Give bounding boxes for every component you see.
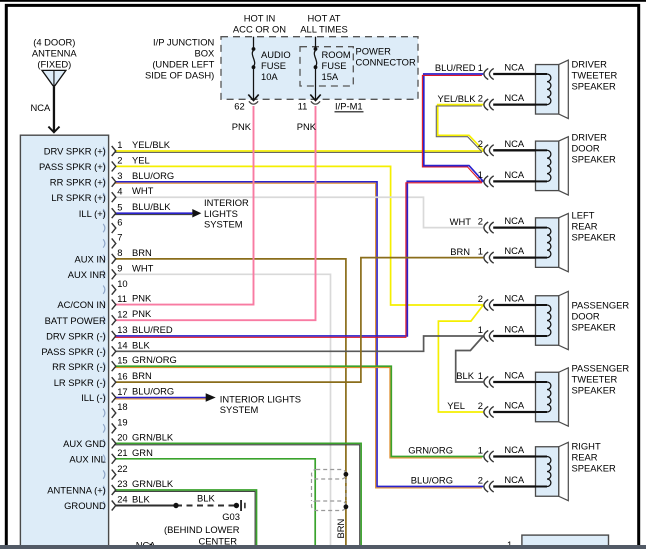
svg-text:4: 4 (117, 185, 122, 196)
svg-text:SYSTEM: SYSTEM (220, 404, 259, 415)
svg-text:WHT: WHT (450, 216, 472, 227)
svg-text:YEL/BLK: YEL/BLK (437, 93, 476, 104)
pin 24 wire color label (132, 494, 150, 505)
wire PNK pin11 from audio fuse (116, 106, 254, 305)
pin 15 bracket (103, 354, 127, 371)
svg-text:INTERIOR: INTERIOR (204, 197, 249, 208)
HOT IN ACC OR ON (233, 13, 286, 35)
pin 20 wire color label (132, 431, 174, 442)
svg-text:10A: 10A (261, 71, 278, 82)
wire BLU/RED branch to driver tweeter pin1 (422, 74, 483, 183)
svg-text:SYSTEM: SYSTEM (204, 219, 243, 230)
svg-text:AUDIO: AUDIO (261, 49, 291, 60)
wire YEL pin2 to passenger door pin2 (116, 166, 484, 305)
svg-text:1: 1 (478, 169, 483, 180)
wire BLU/ORG pin17 to interior lights (114, 398, 208, 399)
svg-text:SPEAKER: SPEAKER (572, 154, 617, 165)
svg-text:PASSENGER: PASSENGER (572, 362, 630, 373)
svg-text:RIGHT: RIGHT (572, 441, 601, 452)
svg-text:G03: G03 (222, 511, 240, 522)
svg-text:TWEETER: TWEETER (572, 373, 618, 384)
svg-text:DOOR: DOOR (572, 311, 600, 322)
pin 62 label (234, 100, 244, 111)
svg-text:19: 19 (117, 417, 127, 428)
svg-text:BLU/RED: BLU/RED (132, 324, 173, 335)
svg-text:BRN: BRN (132, 247, 152, 258)
svg-text:20: 20 (117, 432, 127, 443)
svg-text:GRN/ORG: GRN/ORG (132, 354, 177, 365)
svg-text:AUX INR: AUX INR (68, 269, 106, 280)
svg-text:SIDE OF DASH): SIDE OF DASH) (145, 70, 214, 81)
pin 4 function label (51, 192, 105, 203)
svg-text:GRN/ORG: GRN/ORG (408, 445, 453, 456)
pin 2 wire color label (132, 154, 150, 165)
wire YEL branch to passenger tweeter pin2 (438, 305, 483, 412)
pin 14 wire color label (132, 339, 150, 350)
pin 16 wire color label (132, 370, 152, 381)
pin 1 function label (44, 146, 106, 157)
svg-text:2: 2 (478, 92, 483, 103)
svg-text:NCA: NCA (504, 400, 525, 411)
bottom-right connector box (cut off) (522, 535, 609, 549)
svg-text:RR SPKR (-): RR SPKR (-) (52, 361, 106, 372)
svg-text:YEL/BLK: YEL/BLK (132, 139, 171, 150)
pin 8 function label (75, 253, 106, 264)
svg-text:PASS SPKR (-): PASS SPKR (-) (41, 346, 105, 357)
pin 6 bracket (103, 216, 122, 233)
svg-text:ILL (+): ILL (+) (79, 208, 106, 219)
HOT AT ALL TIMES (300, 13, 347, 35)
svg-text:NCA: NCA (504, 444, 525, 455)
pin 11 wire color label (132, 293, 152, 304)
svg-text:15: 15 (117, 354, 127, 365)
svg-text:(FIXED): (FIXED) (37, 59, 71, 70)
svg-text:SPEAKER: SPEAKER (572, 322, 617, 333)
terminal wire passenger door y=305.0 (484, 293, 536, 311)
svg-text:12: 12 (117, 308, 127, 319)
svg-text:BLK: BLK (132, 494, 150, 505)
BRN vertical label (335, 519, 346, 539)
pin 18 bracket (103, 401, 127, 418)
svg-text:1: 1 (478, 324, 483, 335)
POWER CONNECTOR label (356, 46, 416, 68)
BLK label over dashed ground wire (197, 493, 215, 504)
svg-text:PASSENGER: PASSENGER (572, 300, 630, 311)
wire BLK pin24 ground lead (116, 505, 177, 507)
pin 13 function label (46, 331, 106, 342)
NCA bottom label (136, 540, 157, 549)
svg-text:PNK: PNK (232, 121, 252, 132)
svg-text:(4 DOOR): (4 DOOR) (33, 37, 75, 48)
svg-text:LEFT: LEFT (572, 209, 595, 220)
svg-text:PNK: PNK (297, 121, 317, 132)
pin 1 wire color label (132, 139, 171, 150)
svg-text:BLU/BLK: BLU/BLK (132, 201, 171, 212)
wire GRN/BLK pin20 down (114, 443, 361, 549)
terminal wire left rear y=257.6 (484, 245, 536, 263)
svg-text:INTERIOR LIGHTS: INTERIOR LIGHTS (220, 393, 301, 404)
cut-off arrow near bottom edge (150, 543, 156, 549)
svg-text:22: 22 (117, 463, 127, 474)
svg-text:2: 2 (478, 293, 483, 304)
svg-text:1: 1 (478, 370, 483, 381)
svg-text:ANTENNA (+): ANTENNA (+) (47, 485, 106, 496)
pin 20 bracket (103, 432, 127, 449)
svg-text:17: 17 (117, 386, 127, 397)
svg-text:BRN: BRN (335, 519, 346, 539)
svg-text:AC/CON IN: AC/CON IN (57, 299, 105, 310)
svg-text:SPEAKER: SPEAKER (572, 81, 617, 92)
svg-text:3: 3 (117, 170, 122, 181)
svg-text:2: 2 (478, 474, 483, 485)
svg-text:11: 11 (298, 100, 308, 111)
svg-text:NCA: NCA (504, 215, 525, 226)
pin 20 function label (63, 438, 106, 449)
pin 23 wire color label (132, 478, 174, 489)
bottom window bar (0, 545, 646, 549)
wire BLK branch to passenger tweeter pin1 (456, 336, 484, 382)
speaker: driver door (536, 137, 569, 195)
audio fuse 10A (248, 37, 258, 104)
svg-text:1: 1 (478, 245, 483, 256)
label 2 (passenger door) (478, 293, 483, 304)
terminal wire passenger tweeter y=412.0 (484, 400, 536, 418)
pin 23 bracket (103, 478, 127, 495)
svg-text:REAR: REAR (572, 452, 598, 463)
svg-text:ANTENNA: ANTENNA (32, 48, 78, 59)
wire BLU/BLK pin5 to interior lights (114, 213, 193, 214)
svg-text:HOT IN: HOT IN (244, 13, 276, 24)
wire YEL/BLK branch to driver tweeter pin2 (436, 105, 483, 152)
label BRN 1 (450, 245, 483, 256)
pin 10 bracket (103, 278, 127, 295)
svg-text:BLU/ORG: BLU/ORG (132, 386, 174, 397)
wire GRN/ORG pin15 to right rear pin1 (114, 366, 483, 458)
G03 ground label (164, 511, 240, 547)
pin 9 bracket (103, 262, 122, 279)
ground G03 symbol (234, 503, 239, 508)
speaker labels (572, 59, 618, 92)
wire BRN pin16 to left rear pin1 (116, 258, 484, 383)
wire GRN pin21 down (116, 459, 316, 549)
svg-text:6: 6 (117, 216, 122, 227)
svg-text:14: 14 (117, 340, 127, 351)
pin 23 function label (47, 485, 106, 496)
svg-text:NCA: NCA (504, 474, 525, 485)
svg-text:NCA: NCA (504, 293, 525, 304)
svg-text:GRN: GRN (132, 447, 153, 458)
svg-text:PNK: PNK (132, 293, 152, 304)
svg-text:(BEHIND LOWER: (BEHIND LOWER (164, 524, 240, 535)
svg-text:BLK: BLK (456, 370, 474, 381)
pin 11 label (298, 100, 308, 111)
pin 22 bracket (103, 463, 127, 480)
svg-text:NCA: NCA (504, 245, 525, 256)
svg-text:YEL: YEL (132, 154, 150, 165)
top screenshot edge line (0, 0, 646, 2)
I/P junction box (dashed) (221, 37, 418, 100)
terminal wire driver door y=181.4 (484, 169, 536, 187)
wire WHT pin9 down (116, 274, 331, 549)
AUDIO FUSE 10A label (261, 49, 291, 82)
svg-text:9: 9 (117, 262, 122, 273)
pin 13 wire color label (132, 324, 173, 335)
pin 11 function label (57, 299, 105, 310)
svg-text:BRN: BRN (450, 246, 470, 257)
svg-text:DRIVER: DRIVER (572, 132, 608, 143)
svg-text:DOOR: DOOR (572, 143, 600, 154)
pin 16 function label (54, 377, 106, 388)
svg-text:ACC OR ON: ACC OR ON (233, 24, 286, 35)
svg-text:11: 11 (117, 293, 127, 304)
svg-text:62: 62 (234, 100, 244, 111)
pin 12 function label (45, 315, 106, 326)
antenna symbol (42, 70, 66, 87)
pin 2 function label (39, 161, 106, 172)
pin 12 bracket (103, 308, 127, 325)
svg-text:GROUND: GROUND (64, 500, 106, 511)
arrow into radio box (48, 127, 59, 133)
antenna lead wire (53, 87, 55, 132)
label YEL 2 (447, 400, 483, 411)
svg-text:BATT POWER: BATT POWER (45, 315, 106, 326)
svg-text:YEL: YEL (447, 400, 465, 411)
svg-text:LIGHTS: LIGHTS (204, 208, 238, 219)
svg-text:CENTER: CENTER (198, 536, 237, 547)
svg-text:CONNECTOR: CONNECTOR (356, 57, 416, 68)
speaker: passenger door (536, 291, 569, 349)
svg-text:NCA: NCA (31, 102, 52, 113)
svg-text:2: 2 (478, 215, 483, 226)
svg-text:GRN/BLK: GRN/BLK (132, 478, 174, 489)
pin 17 bracket (103, 386, 127, 403)
terminal wire passenger tweeter y=382.0 (484, 370, 536, 388)
pin 9 function label (68, 269, 106, 280)
svg-text:I/P-M1: I/P-M1 (335, 101, 363, 112)
svg-text:RR SPKR (+): RR SPKR (+) (50, 176, 106, 187)
svg-text:23: 23 (117, 478, 127, 489)
svg-text:ROOM: ROOM (322, 49, 351, 60)
I/P junction box label (145, 37, 215, 81)
terminal wire passenger door y=336.0 (484, 324, 536, 342)
junction dot pin24 (173, 503, 178, 508)
wire PNK pin12 from room fuse (116, 106, 316, 320)
svg-text:ALL TIMES: ALL TIMES (300, 24, 347, 35)
label BLU/ORG 2 (411, 474, 483, 485)
label YEL/BLK 2 (437, 92, 483, 103)
svg-text:1: 1 (478, 444, 483, 455)
speaker: left rear (536, 213, 569, 271)
pin 8 bracket (103, 247, 122, 264)
wire BRN pin8 down to inline connector (116, 259, 346, 549)
pin 12 wire color label (132, 308, 152, 319)
pin 14 bracket (103, 340, 127, 357)
svg-text:SPEAKER: SPEAKER (572, 463, 617, 474)
svg-text:SPEAKER: SPEAKER (572, 231, 617, 242)
terminal wire driver tweeter y=104.6 (484, 92, 536, 110)
svg-text:PASS SPKR (+): PASS SPKR (+) (39, 161, 106, 172)
ROOM FUSE 15A label (322, 49, 351, 82)
pin 15 function label (52, 361, 106, 372)
pin 4 wire color label (132, 185, 154, 196)
svg-text:DRV SPKR (+): DRV SPKR (+) (44, 146, 106, 157)
svg-text:16: 16 (117, 370, 127, 381)
terminal wire left rear y=227.6 (484, 215, 536, 233)
svg-text:POWER: POWER (356, 46, 392, 57)
arrow interior lights (pin17) (206, 393, 216, 402)
wire BLK pin14 to passenger door pin1 (116, 336, 484, 351)
svg-text:BRN: BRN (132, 370, 152, 381)
svg-text:AUX INL: AUX INL (69, 453, 105, 464)
svg-text:BOX: BOX (194, 48, 215, 59)
svg-text:8: 8 (117, 247, 122, 258)
svg-text:(UNDER LEFT: (UNDER LEFT (152, 59, 214, 70)
pin 8 wire color label (132, 247, 152, 258)
svg-text:NCA: NCA (504, 138, 525, 149)
svg-text:10: 10 (117, 278, 127, 289)
speaker: right rear (536, 442, 569, 500)
label BLU/RED 1 (435, 62, 483, 73)
pin 21 bracket (103, 447, 127, 464)
svg-text:7: 7 (117, 232, 122, 243)
wire WHT pin4 to left rear speaker pin2 (116, 197, 484, 227)
wire BLU/ORG pin3 to right rear speaker pin2 (114, 182, 483, 488)
terminal wire right rear y=486.5 (484, 474, 536, 492)
svg-text:DRV SPKR (-): DRV SPKR (-) (46, 331, 106, 342)
svg-text:BLK: BLK (132, 339, 150, 350)
pin 5 bracket (103, 201, 122, 218)
wire YEL/BLK pin1 to driver door speaker (114, 151, 483, 152)
svg-text:TWEETER: TWEETER (572, 70, 618, 81)
pin 11 bracket (103, 293, 127, 310)
power connector inner dashed box (300, 47, 353, 86)
NCA antenna label (31, 102, 52, 113)
svg-text:NCA: NCA (504, 92, 525, 103)
svg-text:NCA: NCA (504, 62, 525, 73)
svg-text:BLU/ORG: BLU/ORG (132, 170, 174, 181)
pin 16 bracket (103, 370, 127, 387)
terminal wire right rear y=456.5 (484, 444, 536, 462)
PNK labels under fuses (232, 121, 317, 132)
pin 21 function label (69, 453, 105, 464)
pin 5 function label (79, 208, 106, 219)
wire BLU/RED pin13 to driver door pin1 (114, 181, 483, 337)
inline connector (dashed pills) on BRN/WHT wires (312, 470, 347, 511)
label 1 (passenger door) (478, 324, 483, 335)
pin 7 bracket (103, 232, 122, 249)
wire GRN/BLK pin23 down (114, 490, 256, 549)
junction dots on BRN at inline connector (344, 472, 349, 477)
svg-text:PNK: PNK (132, 308, 152, 319)
interior lights system text (pin5) (204, 197, 249, 230)
pin 14 function label (41, 346, 105, 357)
svg-text:NCA: NCA (504, 324, 525, 335)
svg-text:SPEAKER: SPEAKER (572, 384, 617, 395)
svg-text:ILL (-): ILL (-) (81, 392, 106, 403)
pin 17 wire color label (132, 386, 174, 397)
pin 13 bracket (103, 324, 127, 341)
pin 24 bracket (103, 494, 127, 511)
svg-text:2: 2 (478, 138, 483, 149)
room fuse 15A (310, 37, 320, 104)
label BLK 1 (456, 370, 483, 381)
pin 2 bracket (103, 155, 122, 172)
terminal wire driver tweeter y=74.0 (484, 62, 536, 80)
speaker: driver tweeter (536, 60, 569, 118)
pin 24 function label (64, 500, 106, 511)
antenna labels (32, 37, 78, 70)
svg-text:BLU/ORG: BLU/ORG (411, 475, 453, 486)
svg-text:AUX IN: AUX IN (75, 253, 106, 264)
pin 9 wire color label (132, 262, 154, 273)
svg-text:FUSE: FUSE (322, 60, 347, 71)
svg-text:BLU/RED: BLU/RED (435, 62, 476, 73)
wire BLK pin24 dashed to G03 (176, 505, 236, 507)
pin 3 function label (50, 176, 106, 187)
svg-text:NCA: NCA (504, 370, 525, 381)
pin 3 wire color label (132, 170, 174, 181)
svg-text:1: 1 (117, 139, 122, 150)
svg-text:21: 21 (117, 447, 127, 458)
svg-text:HOT AT: HOT AT (308, 13, 341, 24)
svg-text:REAR: REAR (572, 220, 598, 231)
svg-text:GRN/BLK: GRN/BLK (132, 431, 174, 442)
svg-text:FUSE: FUSE (261, 60, 286, 71)
interior lights system text (pin17) (220, 393, 301, 415)
svg-text:13: 13 (117, 324, 127, 335)
svg-text:1: 1 (478, 62, 483, 73)
pin 15 wire color label (132, 354, 177, 365)
label 1 (driver door) (478, 169, 483, 180)
pin 21 wire color label (132, 447, 153, 458)
svg-text:NCA: NCA (504, 169, 525, 180)
pin 19 bracket (103, 417, 127, 434)
label GRN/ORG 1 (408, 444, 483, 455)
svg-text:24: 24 (117, 494, 127, 505)
arrow interior lights (pin5) (192, 209, 201, 218)
svg-text:BLK: BLK (197, 493, 215, 504)
svg-text:WHT: WHT (132, 185, 154, 196)
svg-text:5: 5 (117, 201, 122, 212)
pin 5 wire color label (132, 201, 171, 212)
I/P-M1 connector label (335, 101, 364, 112)
radio head-unit connector box (20, 135, 108, 549)
svg-text:2: 2 (478, 400, 483, 411)
speaker: passenger tweeter (536, 368, 569, 426)
label WHT 2 (450, 215, 483, 226)
svg-text:15A: 15A (322, 71, 339, 82)
svg-text:DRIVER: DRIVER (572, 59, 608, 70)
svg-text:LR SPKR (-): LR SPKR (-) (54, 377, 106, 388)
svg-text:2: 2 (117, 155, 122, 166)
label 2 (driver door) (478, 138, 483, 149)
svg-text:WHT: WHT (132, 262, 154, 273)
svg-text:18: 18 (117, 401, 127, 412)
svg-text:LR SPKR (+): LR SPKR (+) (51, 192, 105, 203)
pin 4 bracket (103, 185, 122, 202)
pin 3 bracket (103, 170, 122, 187)
pin 17 function label (81, 392, 106, 403)
terminal wire driver door y=150.3 (484, 138, 536, 156)
svg-text:I/P JUNCTION: I/P JUNCTION (153, 37, 214, 48)
svg-text:AUX GND: AUX GND (63, 438, 106, 449)
pin 1 bracket (103, 139, 122, 156)
